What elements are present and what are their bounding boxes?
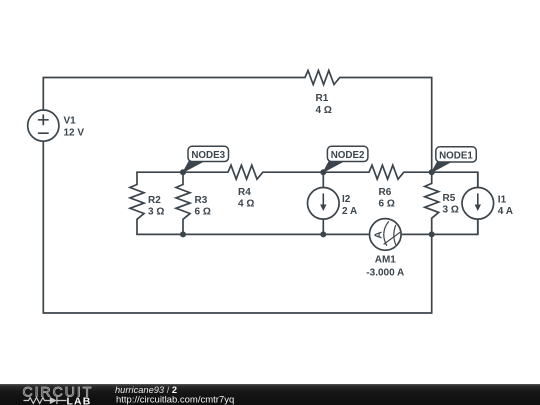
svg-text:4 A: 4 A [498, 206, 513, 217]
svg-text:I1: I1 [498, 195, 507, 206]
svg-text:R4: R4 [238, 187, 251, 198]
svg-text:3 Ω: 3 Ω [148, 207, 164, 218]
svg-text:http://circuitlab.com/cmtr7yq: http://circuitlab.com/cmtr7yq [116, 395, 234, 405]
svg-text:R1: R1 [316, 93, 329, 104]
svg-text:R5: R5 [443, 193, 456, 204]
svg-text:4 Ω: 4 Ω [316, 105, 332, 116]
svg-text:4 Ω: 4 Ω [238, 199, 254, 210]
svg-text:6 Ω: 6 Ω [379, 199, 395, 210]
svg-text:R3: R3 [195, 195, 208, 206]
svg-text:A: A [372, 231, 384, 239]
svg-text:I2: I2 [342, 194, 351, 205]
svg-text:-3.000 A: -3.000 A [366, 268, 404, 279]
svg-text:NODE1: NODE1 [439, 150, 473, 161]
svg-text:NODE2: NODE2 [331, 150, 365, 161]
svg-text:R6: R6 [379, 187, 392, 198]
svg-text:hurricane93 / 2: hurricane93 / 2 [115, 385, 177, 395]
svg-text:2 A: 2 A [342, 206, 357, 217]
svg-text:12 V: 12 V [64, 128, 85, 139]
svg-text:NODE3: NODE3 [191, 150, 225, 161]
svg-text:R2: R2 [148, 195, 161, 206]
svg-text:AM1: AM1 [375, 255, 397, 266]
svg-text:3 Ω: 3 Ω [443, 205, 459, 216]
svg-text:V1: V1 [64, 116, 77, 127]
svg-text:6 Ω: 6 Ω [195, 207, 211, 218]
svg-text:LAB: LAB [67, 396, 92, 405]
